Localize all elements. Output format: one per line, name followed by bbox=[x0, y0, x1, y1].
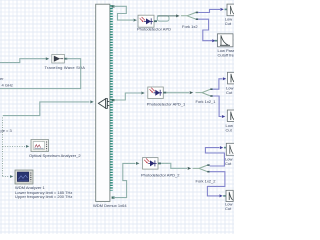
wire demux port to photodetector APD_1 bbox=[112, 92, 145, 102]
svg-text:Cut: Cut bbox=[225, 206, 232, 211]
photodetector APD_2 icon bbox=[143, 158, 159, 170]
svg-text:4 GHz: 4 GHz bbox=[2, 83, 13, 88]
dotted monitor line vertical bbox=[2, 118, 4, 177]
wire photodetector APD_2 to fork 1x2_2 bbox=[158, 163, 191, 170]
svg-text:Photodetector APD_1: Photodetector APD_1 bbox=[147, 101, 186, 106]
wire loop photodetector APD to fork bbox=[154, 14, 180, 22]
wire fork top to low pass filter A bbox=[198, 8, 227, 13]
WDM demux box bbox=[96, 4, 110, 201]
low pass filter C (cut at edge) bbox=[228, 72, 236, 84]
fork 1x2_2 bbox=[193, 164, 210, 172]
wire photodetector APD_1 to fork 1x2_1 bbox=[163, 91, 193, 94]
svg-text:Fork 1x2_1: Fork 1x2_1 bbox=[196, 99, 217, 104]
dotted line to optical spectrum analyzer bbox=[3, 145, 30, 148]
fork 1x2_1 bbox=[196, 88, 213, 96]
wire fork 1x2_1 bottom to low pass filter D bbox=[213, 96, 226, 118]
fork 1x2 bbox=[181, 12, 198, 20]
svg-text:Optical Spectrum Analyzer_2: Optical Spectrum Analyzer_2 bbox=[29, 153, 81, 158]
wire from left-edge source to SOA input bbox=[0, 57, 49, 62]
svg-text:Cut: Cut bbox=[225, 161, 232, 166]
svg-text:Photodetector APD_2: Photodetector APD_2 bbox=[141, 172, 180, 177]
left-edge component parameter text bbox=[0, 76, 13, 88]
svg-text:Fork 1x2_2: Fork 1x2_2 bbox=[196, 179, 217, 184]
wire demux port 1 to photodetector APD bbox=[112, 5, 137, 21]
WDM demux output ports column bbox=[110, 5, 113, 190]
wire fork bottom to low pass filter B bbox=[198, 19, 217, 42]
svg-text:Cut: Cut bbox=[226, 127, 233, 132]
low pass filter F bbox=[226, 190, 233, 201]
traveling wave SOA icon bbox=[52, 54, 65, 63]
wire demux port to photodetector APD_2 bbox=[112, 162, 140, 199]
optical spectrum analyzer OSA_2 icon bbox=[31, 140, 49, 152]
low pass filter E (cut at edge) bbox=[226, 143, 235, 155]
background grid bbox=[0, 0, 234, 234]
wire fork 1x2_2 top to low pass filter E bbox=[205, 146, 226, 166]
svg-text:Photodetector APD: Photodetector APD bbox=[137, 27, 171, 32]
wire fork 1x2_2 bottom to low pass filter F bbox=[207, 172, 226, 198]
dotted line to WDM analyzer bbox=[3, 175, 14, 178]
photodetector APD icon bbox=[138, 15, 154, 27]
svg-text:Upper frequency limit = 200 T: Upper frequency limit = 200 THz bbox=[15, 194, 72, 199]
WDM demux icon bbox=[98, 99, 109, 109]
WDM analyzer icon bbox=[15, 170, 33, 184]
low pass filter A (cut at edge) bbox=[227, 4, 236, 16]
low pass filter B bbox=[218, 34, 234, 47]
svg-text:Traveling Wave SOA: Traveling Wave SOA bbox=[45, 65, 86, 70]
svg-text:Cutoff fre: Cutoff fre bbox=[218, 53, 235, 58]
svg-text:WDM Demux 1x64: WDM Demux 1x64 bbox=[93, 203, 127, 208]
low pass filter D (cut at edge) bbox=[227, 110, 235, 122]
photodetector APD_1 icon bbox=[148, 87, 164, 99]
svg-text:Fork 1x2: Fork 1x2 bbox=[182, 24, 198, 29]
wire fork 1x2_1 top to low pass filter C bbox=[213, 77, 227, 89]
wire from left-edge into WDM demux input bbox=[3, 100, 94, 115]
wire from SOA output looping left off-canvas bbox=[0, 58, 81, 89]
svg-text:Cut: Cut bbox=[225, 21, 232, 26]
svg-text:Cut: Cut bbox=[226, 90, 233, 95]
